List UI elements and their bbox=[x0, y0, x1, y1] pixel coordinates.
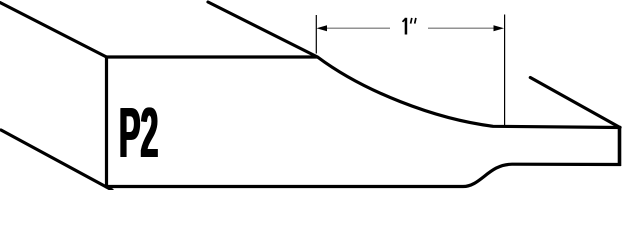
dimension: left extension line bbox=[315, 15, 317, 54]
dimension: left arrowhead bbox=[317, 25, 328, 31]
edge: receding line to profile shoulder bbox=[208, 2, 318, 57]
dimension: value text 1 inch bbox=[403, 18, 416, 35]
dimension: right arrowhead bbox=[494, 25, 505, 31]
edge: bottom with step transition bbox=[105, 164, 621, 186]
dimension: right extension line bbox=[504, 15, 506, 126]
edge: receding top-left corner line bbox=[0, 3, 107, 58]
label: profile name P2 bbox=[120, 107, 158, 157]
edge: receding top-right corner line bbox=[530, 78, 620, 128]
dimension: line left segment bbox=[326, 27, 390, 29]
edge: receding bottom-left corner line bbox=[1, 130, 112, 190]
dimension: line right segment bbox=[428, 27, 495, 29]
edge: ogee curve and right flat top bbox=[318, 57, 622, 128]
edge: right vertical end bbox=[618, 126, 622, 166]
edge: left vertical side of profile face bbox=[105, 56, 108, 188]
edge: top horizontal of profile face bbox=[105, 55, 318, 58]
